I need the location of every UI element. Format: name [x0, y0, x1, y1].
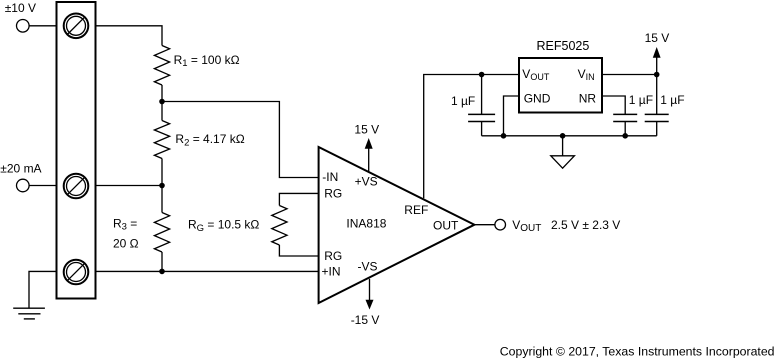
wire node B to R3 top — [161, 186, 163, 213]
resistor R2 = 4.17 kOhm — [154, 121, 169, 159]
svg-text:NR: NR — [579, 92, 597, 106]
svg-text:2.5 V ± 2.3 V: 2.5 V ± 2.3 V — [551, 218, 620, 232]
svg-text:1 µF: 1 µF — [629, 93, 653, 107]
svg-text:-IN: -IN — [322, 170, 338, 184]
capacitor C1 1uF plates — [468, 114, 495, 121]
svg-text:+VS: +VS — [355, 175, 378, 189]
wire RG bottom pin — [279, 245, 318, 256]
svg-text:+IN: +IN — [322, 264, 341, 278]
wire row B: block to node B — [96, 185, 163, 187]
input terminal J1 ±10 V — [17, 20, 30, 33]
svg-text:INA818: INA818 — [346, 217, 386, 231]
svg-text:1 µF: 1 µF — [660, 93, 684, 107]
capacitor C2 1uF plates — [613, 114, 637, 121]
svg-text:15 V: 15 V — [354, 123, 379, 137]
analog ground triangle symbol — [551, 156, 575, 168]
junction rail/C2 dot — [622, 133, 628, 139]
svg-text:OUT: OUT — [433, 218, 459, 232]
wire row A: block to R1 top — [96, 26, 163, 46]
wire C1 bottom lead — [481, 122, 483, 136]
junction node A dot — [159, 99, 165, 105]
wire -VS supply stub — [369, 279, 371, 301]
wire C2 bottom lead — [624, 122, 626, 136]
capacitor C3 1uF plates — [645, 114, 669, 121]
svg-text:1 µF: 1 µF — [451, 94, 475, 108]
svg-text:RG: RG — [324, 249, 342, 263]
resistor R3 = 20 Ohm — [154, 213, 169, 253]
input terminal J2 ±20 mA — [17, 179, 30, 192]
terminal block TB1 body — [57, 2, 96, 299]
wire REF pin to VOUT row — [424, 75, 519, 199]
svg-text:15 V: 15 V — [645, 31, 670, 45]
svg-text:RG: RG — [324, 186, 342, 200]
wire node A to -IN pin — [162, 102, 319, 178]
svg-text:20 Ω: 20 Ω — [113, 236, 139, 250]
wire 15V node down to C3 — [656, 75, 658, 115]
wire OUT to output terminal — [474, 224, 495, 226]
wire C1 top lead — [481, 75, 483, 115]
terminal block screw 3 — [64, 260, 89, 285]
wire J1 to terminal block — [29, 25, 56, 27]
wire analog ground stem — [562, 136, 564, 156]
svg-text:-15 V: -15 V — [351, 313, 380, 327]
junction node C dot — [159, 269, 165, 275]
wire NR pin to C2 — [602, 96, 625, 114]
arrowhead -VS -15V — [366, 300, 374, 310]
svg-text:GND: GND — [524, 92, 551, 106]
resistor R1 = 100 kOhm — [154, 46, 169, 86]
svg-text:REF5025: REF5025 — [537, 39, 590, 53]
svg-text:Copyright © 2017, Texas Instru: Copyright © 2017, Texas Instruments Inco… — [500, 345, 775, 359]
wire GND pin to rail — [504, 96, 520, 136]
junction VOUT/REF dot — [479, 72, 485, 78]
junction rail/GND dot — [501, 133, 507, 139]
wire +VS supply stub — [368, 148, 370, 172]
wire block bottom screw to ground — [29, 271, 57, 308]
svg-text:±20 mA: ±20 mA — [0, 162, 41, 176]
svg-text:-VS: -VS — [358, 260, 378, 274]
wire R1 bottom to node A — [161, 85, 163, 102]
terminal block screw 1 — [64, 13, 89, 38]
wire node A to R2 top — [161, 102, 163, 121]
ground earth symbol — [13, 308, 45, 319]
arrowhead +VS 15V — [365, 138, 373, 149]
wire C3 bottom lead — [656, 122, 658, 136]
wire R3 bottom to node C — [161, 252, 163, 271]
svg-text:±10 V: ±10 V — [5, 1, 36, 15]
junction node B dot — [159, 183, 165, 189]
wire ground rail — [482, 135, 657, 137]
wire row C: block to +IN pin — [96, 270, 319, 272]
junction rail/ground dot — [560, 133, 566, 139]
wire VIN pin to 15V node — [602, 74, 657, 76]
arrowhead 15V right — [653, 47, 661, 58]
REF5025 U2 box — [519, 58, 602, 113]
wire J2 to terminal block — [29, 185, 56, 187]
op-amp U1 INA818 triangle — [319, 147, 475, 303]
wire 15V supply stub right — [656, 57, 658, 75]
wire RG top pin — [279, 193, 318, 205]
svg-text:REF: REF — [404, 203, 428, 217]
terminal block screw 2 — [64, 174, 89, 199]
resistor RG = 10.5 kOhm — [272, 206, 287, 246]
junction VIN/15V dot — [654, 72, 660, 78]
wire R2 bottom to node B — [161, 159, 163, 186]
output terminal VOUT — [495, 219, 506, 230]
